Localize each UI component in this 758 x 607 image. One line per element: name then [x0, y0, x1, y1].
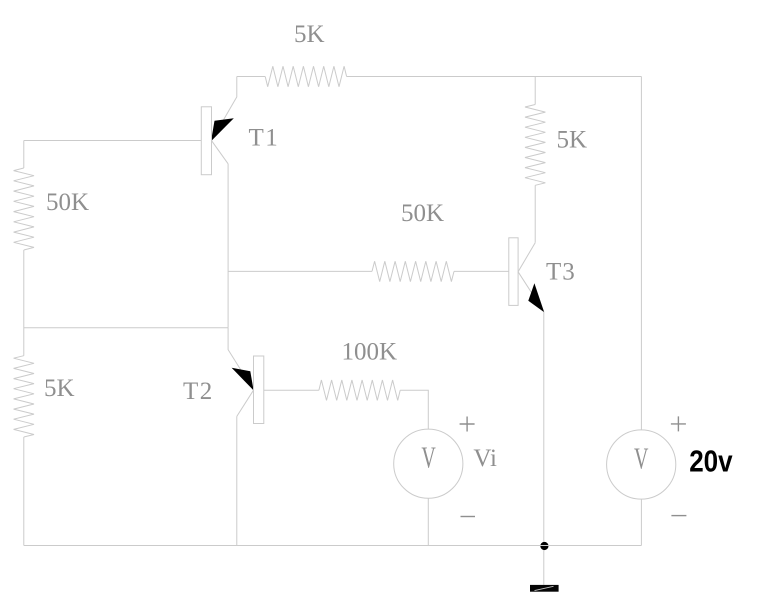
wire R6 to Vi source	[400, 390, 428, 429]
voltage source 20v	[607, 416, 687, 515]
svg-text:50K: 50K	[401, 200, 444, 227]
transistor T1	[201, 77, 237, 175]
wire bottom rail	[24, 545, 642, 547]
svg-text:T1: T1	[249, 124, 280, 151]
resistor R2 5K right vertical	[525, 105, 545, 186]
svg-text:50K: 50K	[46, 189, 89, 216]
resistor R1 5K top	[265, 66, 346, 86]
wire 5K branch from top rail	[534, 77, 536, 105]
wire R3 to T3 base	[454, 270, 509, 272]
svg-text:5K: 5K	[557, 126, 588, 153]
wire right rail down to 20v source	[640, 77, 642, 430]
resistor R6 100K	[319, 380, 400, 400]
wire top rail left segment	[237, 76, 265, 78]
wire top rail right segment	[347, 76, 642, 78]
wire T2 base to R6	[264, 389, 319, 391]
resistor R3 50K middle	[372, 261, 454, 281]
wire T3 emitter to bottom rail and ground	[543, 312, 545, 585]
wire T1 collector node to R3	[228, 270, 372, 272]
resistor R5 5K left vertical	[14, 356, 34, 437]
svg-text:20v: 20v	[689, 444, 732, 479]
wire between R4 and R5	[23, 250, 25, 356]
wire T2 emitter to bottom rail	[236, 416, 238, 545]
svg-text:100K: 100K	[342, 339, 398, 366]
svg-text:T3: T3	[546, 259, 576, 286]
svg-text:T2: T2	[183, 378, 214, 405]
wire mid horizontal (left branch to T1 collector)	[24, 327, 228, 329]
wire left branch upper	[23, 141, 25, 169]
ground	[530, 585, 559, 592]
transistor T2	[228, 328, 264, 424]
wire T1 base to left branch	[24, 140, 202, 142]
svg-text:V: V	[634, 441, 649, 475]
svg-text:V: V	[421, 440, 436, 474]
wire 20v source bottom to rail	[640, 499, 642, 545]
wire T1 collector down	[227, 164, 229, 328]
voltage source Vi	[394, 417, 475, 517]
wire R2 to T3 collector	[534, 185, 536, 242]
wire R5 to bottom rail	[23, 437, 25, 546]
resistor R4 50K left vertical	[14, 168, 34, 250]
svg-text:5K: 5K	[44, 375, 75, 402]
svg-text:5K: 5K	[294, 21, 325, 48]
node junction at bottom rail	[540, 542, 548, 550]
svg-text:Vi: Vi	[473, 445, 497, 472]
wire Vi source to bottom rail	[427, 498, 429, 545]
transistor T3	[509, 238, 544, 312]
